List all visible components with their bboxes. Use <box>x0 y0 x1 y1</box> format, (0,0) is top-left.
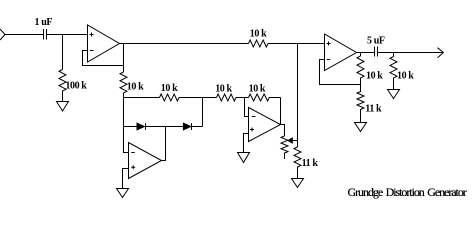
wire U3 output to pot <box>281 125 285 137</box>
wire right node vertical <box>202 98 204 127</box>
wire R3 to node <box>179 97 203 99</box>
resistor R3 10k horizontal <box>160 94 179 101</box>
svg-text:Grundge Distortion Generator: Grundge Distortion Generator <box>348 185 467 199</box>
U2 plus glyph <box>131 165 135 169</box>
svg-text:10 k: 10 k <box>127 82 144 93</box>
wire input to C1 <box>5 34 44 36</box>
svg-text:1 uF: 1 uF <box>35 17 53 28</box>
wire tap down from output <box>123 44 125 73</box>
resistor R10 11k <box>357 85 364 123</box>
capacitor C2 <box>375 47 378 57</box>
wire C2 to output arrow <box>378 52 444 54</box>
wire node line y97 <box>124 97 160 99</box>
ground under U3 <box>238 153 250 163</box>
svg-text:11 k: 11 k <box>365 104 382 115</box>
wire junction down to U3 minus <box>245 98 249 117</box>
svg-text:10 k: 10 k <box>397 71 414 82</box>
U3 minus glyph <box>252 116 256 118</box>
ground under R7 <box>292 179 304 188</box>
svg-text:10 k: 10 k <box>366 71 383 82</box>
U1 plus glyph <box>90 33 94 37</box>
resistor R8 10k top <box>249 40 268 47</box>
wire vertical to U2 minus <box>124 98 129 153</box>
svg-text:11 k: 11 k <box>302 158 319 169</box>
diode D1 bar <box>145 123 147 130</box>
diode D2 <box>183 123 190 130</box>
resistor R4 10k horizontal <box>217 94 236 101</box>
ground under R11 <box>388 90 400 99</box>
ground under R10 <box>355 123 367 132</box>
wire R4 to junction <box>236 97 249 99</box>
wire U1 feedback loop <box>83 51 124 66</box>
wire mid diode junction to U2 output <box>162 127 166 161</box>
wire node to R4 <box>203 97 217 99</box>
pot wiper arrow <box>288 138 292 143</box>
op-amp U1 <box>88 25 120 62</box>
wire junction down to R11 <box>393 53 395 57</box>
wire R5 to output drop <box>269 97 280 99</box>
wire U3 plus to ground <box>244 134 249 153</box>
svg-text:5 uF: 5 uF <box>367 36 385 47</box>
wire wiper to bus <box>292 140 297 142</box>
U3 plus glyph <box>250 128 254 132</box>
svg-text:10 k: 10 k <box>249 84 266 95</box>
U1 minus glyph <box>90 50 94 52</box>
ground under U2 <box>117 189 129 198</box>
resistor R5 10k feedback <box>249 94 270 101</box>
op-amp U4 <box>325 34 357 71</box>
wire diode branch left <box>124 126 138 128</box>
wire pot bus vertical <box>297 44 299 148</box>
U2 minus glyph <box>131 152 135 154</box>
diode D1 <box>137 123 144 130</box>
resistor R2 10k vertical <box>120 72 127 98</box>
ground under R1 <box>57 102 69 112</box>
svg-text:10 k: 10 k <box>250 29 267 40</box>
capacitor C1 <box>44 29 47 40</box>
svg-text:10 k: 10 k <box>161 83 178 94</box>
output arrow <box>438 48 444 58</box>
U4 plus glyph <box>327 42 331 46</box>
wire C1 to U1 + input <box>47 34 88 36</box>
diode D2 bar <box>191 123 193 130</box>
wire U1 output bus <box>120 43 325 45</box>
resistor R9 10k <box>357 56 364 85</box>
wire U4 output <box>357 52 375 54</box>
input connector J1 <box>0 29 5 40</box>
wire U4 feedback loop <box>320 60 361 85</box>
wire D2 to right node <box>192 126 203 128</box>
resistor R11 10k <box>390 57 397 90</box>
op-amp U2 <box>129 143 162 179</box>
wire output junction down <box>360 53 362 57</box>
U4 minus glyph <box>327 59 331 61</box>
wire D1 to D2 <box>146 126 184 128</box>
resistor R1 100k <box>59 70 66 102</box>
wire feedback drop to U3 output <box>280 98 282 125</box>
wire junction down to R1 <box>62 35 64 70</box>
resistor R7 11k <box>294 147 301 179</box>
svg-text:100 k: 100 k <box>65 81 87 92</box>
op-amp U3 <box>249 108 281 142</box>
potentiometer R6 body <box>281 136 288 159</box>
svg-text:10 k: 10 k <box>215 84 232 95</box>
wire U2 plus to ground <box>123 169 129 189</box>
